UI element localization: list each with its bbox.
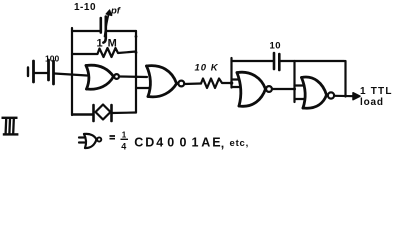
junction dot 10K / gate3 rail bbox=[230, 81, 234, 85]
gate4 input stubs bbox=[295, 86, 305, 100]
output wire with arrow bbox=[334, 95, 355, 98]
figure number III bbox=[2, 118, 19, 135]
svg-text:,: , bbox=[221, 137, 224, 151]
junction dot right rail blob bbox=[135, 35, 138, 38]
svg-text:A: A bbox=[201, 135, 210, 149]
gate3 input rail bbox=[230, 58, 232, 88]
svg-text:etc,: etc, bbox=[230, 138, 250, 149]
svg-text:1: 1 bbox=[192, 135, 199, 149]
crystal Y1 bbox=[92, 105, 95, 121]
svg-text:4: 4 bbox=[156, 135, 163, 149]
capacitor 10 bbox=[273, 53, 276, 69]
resistor 1M bbox=[72, 48, 136, 57]
top rail wire bbox=[72, 30, 136, 32]
NOR gate U1c bbox=[237, 72, 266, 106]
gate U1b output bubble bbox=[178, 81, 184, 87]
capacitor 100 bbox=[47, 60, 50, 80]
wire input lead bbox=[35, 72, 48, 74]
svg-text:10: 10 bbox=[270, 41, 282, 52]
legend gate symbol bbox=[79, 134, 101, 148]
NOR gate U1b bbox=[147, 66, 177, 97]
svg-text:4: 4 bbox=[121, 142, 126, 152]
legend equals sign bbox=[110, 136, 116, 139]
wire gate1 output to gate2 bbox=[120, 75, 147, 78]
gate U1a output bubble bbox=[114, 74, 119, 79]
wire capacitor to gate 1 input bbox=[55, 74, 88, 76]
svg-text:E: E bbox=[212, 135, 220, 149]
gate2 lower input stub bbox=[136, 87, 150, 89]
crystal bottom wire right bbox=[112, 111, 137, 114]
variable capacitor 1-10 pF bbox=[100, 18, 103, 33]
svg-text:1: 1 bbox=[122, 131, 127, 140]
junction dot gate3 out / gate4 rail bbox=[293, 88, 296, 91]
input terminal bbox=[27, 68, 29, 77]
svg-text:0: 0 bbox=[180, 135, 187, 149]
svg-text:10 K: 10 K bbox=[195, 62, 219, 73]
wire gate2 output bbox=[184, 82, 201, 85]
svg-text:1 TTL: 1 TTL bbox=[360, 86, 393, 97]
gate U1c output bubble bbox=[266, 86, 272, 92]
svg-text:C: C bbox=[134, 135, 143, 149]
feedback left rail bbox=[71, 28, 73, 115]
feedback right rail bbox=[135, 31, 137, 113]
svg-text:pf: pf bbox=[110, 6, 121, 17]
crystal bottom wire left bbox=[73, 113, 94, 115]
svg-text:0: 0 bbox=[167, 135, 174, 149]
gate3 input stubs bbox=[232, 80, 241, 88]
svg-text:load: load bbox=[360, 97, 384, 108]
feedback descender bbox=[344, 61, 346, 97]
svg-text:100: 100 bbox=[45, 54, 59, 64]
NOR gate U1a bbox=[86, 65, 114, 89]
gate4 input rail bbox=[293, 61, 295, 102]
svg-text:1-10: 1-10 bbox=[74, 2, 96, 13]
svg-text:D: D bbox=[145, 135, 154, 149]
svg-text:1 M: 1 M bbox=[97, 38, 118, 50]
resistor 10K bbox=[201, 79, 232, 89]
NOR gate U1d bbox=[302, 77, 327, 108]
top feedback rail bbox=[232, 60, 345, 62]
gate U1d output bubble bbox=[328, 92, 334, 98]
wire gate3 output to gate4 bbox=[273, 88, 295, 90]
junction dot gate1 out / right rail bbox=[135, 75, 138, 78]
